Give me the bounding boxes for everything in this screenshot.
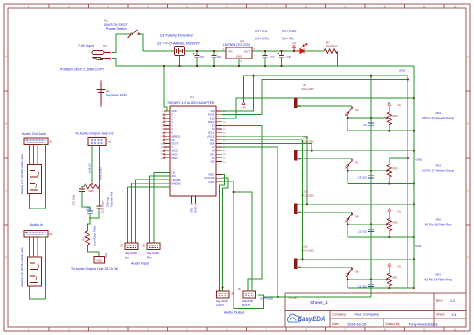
svg-text:VR1: VR1	[435, 272, 441, 276]
svg-text:RCA-022: RCA-022	[302, 193, 315, 197]
svg-text:A3 Pin 16 Filter Res: A3 Pin 16 Filter Res	[425, 222, 452, 226]
svg-text:C10: C10	[86, 207, 92, 211]
svg-text:ROUT: ROUT	[242, 303, 251, 307]
svg-text:RCA-022: RCA-022	[302, 140, 315, 144]
svg-text:7-9V Input: 7-9V Input	[78, 44, 94, 48]
potentiometer VR3	[387, 165, 391, 178]
svg-text:2024-02-25: 2024-02-25	[347, 322, 366, 326]
connector J3 audio in	[24, 230, 48, 237]
svg-text:D: D	[467, 257, 469, 260]
svg-text:SCL: SCL	[210, 140, 215, 142]
svg-text:+3v: +3v	[397, 264, 402, 268]
svg-text:C4: C4	[363, 123, 367, 127]
svg-text:DOUT: DOUT	[172, 144, 179, 146]
svg-text:Sheet:: Sheet:	[436, 313, 445, 317]
svg-text:C3 102: C3 102	[358, 176, 367, 180]
svg-text:MISO: MISO	[172, 158, 178, 160]
svg-text:Sheet_1: Sheet_1	[310, 300, 328, 306]
wire jack2 bottom	[30, 286, 46, 299]
wire C6 to ground rail	[213, 60, 215, 66]
capacitor C4	[370, 118, 372, 123]
jack symbol audio in body	[28, 257, 42, 286]
IC U1 bottom left pins	[164, 173, 181, 186]
wire VR4 top	[388, 105, 390, 112]
svg-text:VR2: VR2	[392, 220, 398, 224]
svg-text:RCA-022: RCA-022	[302, 248, 315, 252]
svg-text:A0 Pin 14 Filter Freq: A0 Pin 14 Filter Freq	[424, 277, 452, 281]
capacitor C8	[281, 51, 283, 55]
svg-text:Low Pass Filter: Low Pass Filter	[93, 225, 97, 246]
svg-text:RINGND: RINGND	[172, 183, 182, 185]
wire VR4 bottom rail	[348, 130, 414, 132]
svg-text:Power Switch: Power Switch	[106, 27, 127, 31]
wire Q1 to C5 C6 and U4	[185, 50, 227, 52]
switch S2	[351, 106, 353, 107]
wire jack tip to switch	[112, 34, 131, 53]
wires J3 to jack body	[29, 237, 31, 257]
svg-text:Gnd: Gnd	[104, 253, 108, 258]
power flag +3V rail	[293, 47, 295, 51]
transistor Q1 P-channel MOSFET	[175, 47, 185, 56]
title block	[285, 293, 466, 327]
svg-text:S5: S5	[355, 269, 359, 273]
wire mid bus vertical	[370, 76, 372, 297]
wire J10 sleeve to switch S1	[298, 158, 353, 160]
IC U1 bottom right pins	[204, 175, 222, 184]
svg-text:C9 10uf: C9 10uf	[72, 195, 76, 205]
capacitor C2 102	[370, 224, 372, 229]
connector U2 power jack	[92, 51, 110, 60]
svg-text:+3V: +3V	[292, 41, 297, 45]
svg-text:GND: GND	[236, 55, 242, 59]
wire VR2 pot bottom stub	[388, 231, 390, 237]
svg-text:C3 = 0.1u: C3 = 0.1u	[255, 29, 268, 33]
svg-text:R1: R1	[82, 237, 86, 241]
svg-text:SDI: SDI	[211, 162, 215, 164]
wire LED to R7	[304, 50, 324, 52]
svg-text:Sig GND: Sig GND	[125, 251, 138, 255]
svg-text:VIN: VIN	[211, 111, 215, 113]
wire output R branch	[234, 192, 252, 291]
svg-text:C2 102: C2 102	[358, 229, 367, 233]
svg-text:Io-B (1): Io-B (1)	[88, 163, 92, 173]
svg-text:S2: S2	[355, 108, 359, 112]
svg-text:REV:: REV:	[436, 299, 443, 303]
wire VR1 bottom rail	[348, 287, 414, 289]
svg-text:Sig GND: Sig GND	[147, 251, 160, 255]
svg-text:GND: GND	[96, 258, 102, 262]
svg-text:BCLK: BCLK	[208, 133, 215, 135]
wire GND bus vertical	[413, 66, 415, 288]
svg-text:SDCS: SDCS	[172, 151, 179, 153]
wire U1 RIN	[150, 176, 171, 243]
svg-text:VOL: VOL	[210, 154, 215, 156]
wire J2 tip to gnd bus	[298, 97, 414, 99]
wire VR3 top to 3V bus	[389, 157, 408, 159]
wire VR3 pot bottom stub	[388, 177, 390, 183]
svg-text:SDA: SDA	[210, 143, 215, 146]
svg-text:OUT: OUT	[244, 50, 250, 54]
svg-text:VR3: VR3	[435, 164, 441, 168]
svg-text:Audio In: Audio In	[30, 223, 43, 227]
wire 3V bus vertical	[407, 76, 409, 288]
svg-text:J6: J6	[142, 244, 145, 248]
svg-text:Io-B GND: Io-B GND	[99, 167, 103, 180]
svg-text:Your Company: Your Company	[354, 313, 379, 317]
svg-text:J9: J9	[238, 287, 241, 291]
capacitor C1 102	[370, 279, 372, 284]
svg-text:Neutrik 1/4" NC3FJ Audio Jack: Neutrik 1/4" NC3FJ Audio Jack	[20, 247, 24, 287]
wire U4 OUT rail	[252, 50, 296, 52]
wire U1 SDA feed to block C	[222, 136, 307, 204]
power flag +3V VR1	[388, 264, 391, 267]
wire U1 AGND to top line	[222, 79, 408, 114]
wire U1 LOUT to output connector	[220, 175, 225, 292]
svg-text:C7: C7	[271, 55, 275, 59]
power flag +3V VR4	[388, 102, 391, 105]
svg-text:VR3: VR3	[392, 167, 398, 171]
wire R7 to ground rail loop	[337, 51, 339, 66]
wire J7 right pin down	[98, 146, 100, 187]
capacitor C5	[196, 51, 198, 55]
svg-text:C5 = 0.33u: C5 = 0.33u	[282, 29, 297, 33]
svg-text:GND: GND	[172, 111, 177, 113]
svg-text:Neutrik 1/4" NC3MJ Audio Jack: Neutrik 1/4" NC3MJ Audio Jack	[20, 153, 24, 194]
wire switch to V+ rail	[140, 34, 143, 51]
svg-text:C6 = 47u: C6 = 47u	[282, 37, 294, 41]
potentiometer VR5 volume	[84, 184, 99, 188]
wire VR3 top	[388, 158, 390, 165]
IC U1 left pins	[161, 111, 181, 160]
svg-text:Audio Output: Audio Output	[224, 311, 244, 315]
wire pot right down to C11	[98, 187, 100, 207]
V+ rail wire	[143, 50, 175, 52]
ground port below R1	[94, 257, 105, 264]
wire J11 tip to gnd bus	[298, 203, 414, 205]
svg-text:GND: GND	[415, 244, 421, 248]
svg-text:Rin: Rin	[147, 255, 152, 259]
svg-text:S4: S4	[355, 214, 359, 218]
svg-text:LOUT: LOUT	[208, 182, 215, 184]
svg-text:U2: U2	[103, 44, 107, 48]
svg-text:C4 = 0.47u: C4 = 0.47u	[255, 37, 270, 41]
connector J1 audio out	[24, 138, 48, 145]
svg-text:LIN: LIN	[172, 173, 176, 175]
wire jack body down	[30, 194, 46, 209]
mounting H1 Keystone 1234	[97, 82, 106, 105]
svg-text:Audio Input: Audio Input	[131, 262, 149, 266]
svg-text:GND: GND	[192, 208, 194, 213]
svg-text:Drawn By:: Drawn By:	[386, 322, 401, 326]
wire J11 sleeve to switch S4	[298, 211, 353, 213]
wire audio input gnd	[128, 187, 171, 243]
svg-text:1/1: 1/1	[452, 313, 457, 317]
svg-text:MOSI: MOSI	[172, 154, 178, 156]
wire J12 sleeve to switch S5	[298, 266, 353, 268]
svg-text:C: C	[5, 190, 7, 193]
connector audio output L	[217, 291, 230, 298]
wire jack sleeve to ground rail	[112, 59, 164, 67]
wire U1 BCLK feed to block B	[222, 143, 312, 150]
ground rail wire	[164, 65, 414, 67]
svg-text:C6: C6	[217, 55, 221, 59]
svg-text:H2: H2	[49, 232, 53, 236]
wire VR1 top	[388, 267, 390, 274]
svg-text:VR2: VR2	[435, 217, 441, 221]
svg-text:J8: J8	[231, 292, 234, 296]
svg-text:C8: C8	[287, 55, 291, 59]
svg-text:C11 10uf: C11 10uf	[101, 201, 105, 213]
svg-text:TEENSY 4.0 AUDIO ADAPTER: TEENSY 4.0 AUDIO ADAPTER	[167, 101, 215, 105]
wire VR2 bottom rail	[348, 236, 414, 238]
wire pot left to C9	[82, 187, 84, 190]
svg-text:VR5: VR5	[88, 189, 94, 193]
wire U1 pin11 long vertical	[222, 147, 278, 297]
svg-text:RIN: RIN	[172, 176, 176, 178]
connector audio output R	[243, 291, 256, 298]
svg-text:J7: J7	[108, 140, 111, 144]
svg-text:C: C	[467, 190, 469, 193]
svg-text:Q1 = P-CHANNEL MOSFET: Q1 = P-CHANNEL MOSFET	[157, 42, 200, 46]
capacitor C3 102	[370, 171, 372, 176]
svg-text:Tony Amendolare: Tony Amendolare	[409, 322, 438, 326]
svg-text:LOUT: LOUT	[216, 303, 224, 307]
switch S4	[351, 212, 353, 213]
IC U1 bottom pins	[191, 196, 198, 213]
svg-text:+3v: +3v	[397, 209, 402, 213]
svg-text:To Audio Output Line 35 Or 36: To Audio Output Line 35 Or 36	[71, 267, 118, 271]
svg-text:VR4: VR4	[392, 114, 398, 118]
svg-text:3.3V: 3.3V	[210, 118, 215, 120]
switch S1	[351, 159, 353, 160]
wire Q1 gate to ground rail	[179, 56, 181, 67]
wire C8 to ground rail	[281, 60, 283, 66]
svg-text:S1: S1	[104, 19, 108, 23]
svg-text:Volume Pot: Volume Pot	[110, 191, 114, 207]
wires J1 to jack body	[29, 145, 31, 165]
wire U1 pin17 feed to block D	[222, 140, 303, 259]
wire VR2 top	[388, 212, 390, 219]
wire J2 sleeve to switch S2	[298, 105, 353, 107]
wire VR3 bottom rail	[348, 182, 414, 184]
svg-text:GND: GND	[399, 68, 405, 72]
wire wiper VR3	[348, 170, 385, 172]
svg-text:PWLR: PWLR	[208, 122, 215, 124]
svg-text:Lin: Lin	[125, 255, 129, 259]
svg-text:1k Dimm: 1k Dimm	[326, 44, 338, 48]
wire outgnd loop	[234, 295, 264, 309]
potentiometer VR4	[387, 112, 391, 124]
capacitor C6	[213, 51, 215, 55]
potentiometer VR2	[387, 218, 391, 231]
wire S4 to wiper and bottom rail	[347, 220, 349, 237]
wire VR4 pot bottom stub	[388, 125, 390, 131]
wire to low pass filter	[88, 213, 91, 231]
svg-text:C5: C5	[200, 55, 204, 59]
svg-text:LM7805 (TO-220): LM7805 (TO-220)	[223, 43, 250, 47]
wire S2 to wiper and bottom rail	[347, 114, 349, 131]
wire U1 LINGND	[136, 180, 171, 243]
svg-text:TITLE:: TITLE:	[288, 296, 298, 300]
wire U1 VIN up to 3V rail	[222, 76, 254, 111]
svg-text:H1: H1	[49, 140, 53, 144]
svg-text:+3v: +3v	[397, 103, 402, 107]
svg-text:To Audio Output Jack H1: To Audio Output Jack H1	[75, 132, 114, 136]
wire U4 GND to ground rail	[238, 59, 240, 66]
wire U1 OUTGND to output connector	[222, 178, 228, 291]
svg-text:Date:: Date:	[332, 322, 340, 326]
LED D1	[296, 44, 307, 54]
wire 3V rail horizontal	[244, 75, 408, 77]
wire ground rail to U1 pin GND	[164, 66, 170, 111]
wire R1 bottom to gnd port	[88, 245, 100, 257]
svg-text:EasyEDA: EasyEDA	[298, 316, 326, 323]
wire S1 to wiper and bottom rail	[347, 166, 349, 183]
wire wiper VR1	[348, 278, 385, 280]
switch S1	[127, 37, 129, 39]
wire J7 left pin down	[91, 146, 93, 183]
svg-text:AGND: AGND	[195, 206, 198, 213]
svg-text:U1: U1	[190, 95, 194, 99]
svg-text:Keystone 1234: Keystone 1234	[106, 93, 127, 97]
svg-text:LINGND: LINGND	[172, 180, 181, 182]
svg-text:AGND: AGND	[208, 114, 215, 117]
wire wiper VR2	[348, 223, 385, 225]
IC U1 body	[170, 106, 216, 196]
wire C9 to C10	[82, 192, 90, 212]
svg-text:MEMCS: MEMCS	[172, 136, 181, 138]
svg-text:RCA-022: RCA-022	[302, 87, 315, 91]
wire J1 pin4 down right side	[41, 145, 45, 209]
svg-text:VIN: VIN	[228, 50, 233, 54]
connector audio input R	[147, 243, 160, 250]
svg-text:CS: CS	[172, 140, 176, 142]
svg-text:GND: GND	[416, 157, 422, 161]
wire S5 to wiper and bottom rail	[347, 275, 349, 288]
wire U1 3.3V to RCA block A	[222, 98, 298, 118]
svg-text:D: D	[5, 257, 7, 260]
switch S5	[351, 267, 353, 268]
wire J12 tip to gnd bus	[298, 258, 414, 260]
svg-text:S1: S1	[355, 161, 359, 165]
connector J7	[88, 138, 106, 146]
power flag +3V top	[243, 76, 245, 102]
IC U1 right pins	[207, 111, 226, 164]
wire J3 pin4 down right side	[41, 237, 45, 299]
wire wiper VR4	[348, 117, 385, 119]
EasyEDA logo	[287, 314, 325, 323]
jack symbol audio out body	[28, 165, 42, 194]
svg-text:Company:: Company:	[332, 312, 347, 316]
svg-text:4OUT: 4OUT	[208, 175, 215, 177]
wire U1 4OUT down to loop	[222, 182, 234, 309]
svg-text:Audio Out Jack: Audio Out Jack	[22, 132, 46, 136]
connector audio input L	[125, 243, 138, 250]
wire output gnd long	[264, 296, 372, 298]
svg-text:VR4: VR4	[435, 111, 441, 115]
potentiometer VR1	[387, 273, 391, 285]
svg-text:J5: J5	[120, 244, 123, 248]
capacitor C7	[264, 51, 266, 55]
wire J10 tip to gnd bus	[298, 150, 414, 152]
svg-text:POWER JACK 2.1MM COPY: POWER JACK 2.1MM COPY	[60, 68, 105, 72]
svg-text:A2 Pin 17 Reverb Damp: A2 Pin 17 Reverb Damp	[422, 169, 455, 173]
wire U1 LIN	[154, 173, 170, 244]
svg-text:+3V: +3V	[241, 106, 246, 110]
wire VR1 pot bottom stub	[388, 286, 390, 288]
power flag +3V VR2	[388, 209, 391, 212]
wire U1 RINGND	[132, 183, 171, 243]
svg-text:OUTGND: OUTGND	[204, 178, 214, 180]
wire C5 to ground rail	[196, 60, 198, 66]
svg-text:VR1: VR1	[392, 275, 398, 279]
svg-text:Q1 Polarity Protection: Q1 Polarity Protection	[160, 34, 193, 38]
wire C7 to ground rail	[264, 60, 266, 66]
wire C11 to C10 bottom	[90, 208, 99, 218]
svg-text:1.0: 1.0	[450, 299, 455, 303]
wire U1 pin22 to R out connector	[222, 125, 262, 291]
resistor R1 low pass	[85, 231, 89, 245]
svg-text:LRCLK: LRCLK	[207, 136, 215, 138]
svg-text:A8 Pin 22 Reverb Damp: A8 Pin 22 Reverb Damp	[422, 116, 455, 120]
